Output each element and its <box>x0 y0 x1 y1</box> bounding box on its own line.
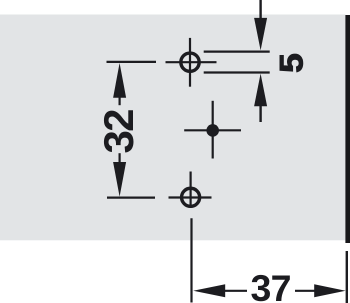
5 dim lower leader shaft <box>259 106 261 123</box>
svg-text:37: 37 <box>251 267 291 303</box>
32 dim top extension line <box>107 61 157 63</box>
5 dim top tangent line <box>204 50 270 52</box>
32 dimension line upper segment <box>118 97 120 105</box>
mounting plate face (grey panel) <box>0 15 346 241</box>
37 dim right arrowhead <box>314 284 345 297</box>
bottom hole circle <box>182 188 200 206</box>
37 dim right extension line <box>346 251 348 303</box>
32 dim bottom extension line <box>107 197 155 199</box>
cabinet front edge (black band) <box>345 15 350 243</box>
32 dimension line lower segment <box>118 153 120 162</box>
top hole crosshair horizontal <box>166 61 217 63</box>
top hole crosshair vertical <box>189 38 191 87</box>
5 dim upper leader shaft <box>259 0 261 19</box>
5 dim up arrowhead <box>254 74 267 107</box>
top hole circle <box>181 53 199 71</box>
32 dim down arrowhead <box>113 162 126 197</box>
bottom hole crosshair vertical <box>190 172 192 209</box>
cup center cross horizontal <box>184 129 241 131</box>
5 dim down arrowhead <box>254 18 267 51</box>
37 dimension line right segment <box>295 290 315 292</box>
32 dim up arrowhead <box>113 63 126 98</box>
37 dimension line left segment <box>225 290 248 292</box>
37 dim left arrowhead <box>193 284 225 297</box>
5 dim bottom tangent line <box>204 71 270 73</box>
bottom hole crosshair horizontal <box>169 196 212 198</box>
37 dim left extension line <box>190 218 192 302</box>
svg-text:32: 32 <box>95 110 142 154</box>
svg-text:5: 5 <box>274 53 310 73</box>
cup center dot <box>206 124 219 137</box>
cup center cross vertical <box>212 101 214 159</box>
